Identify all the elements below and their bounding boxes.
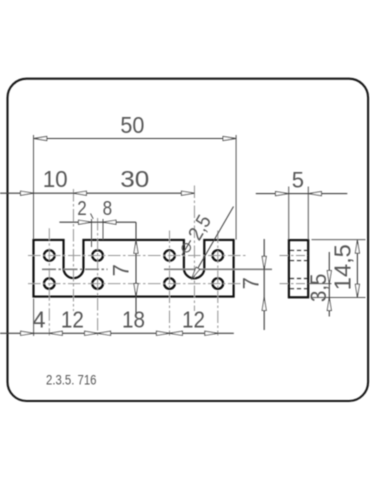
- arrow 30 right: [181, 191, 194, 195]
- arrow 7mid bottom: [134, 284, 138, 297]
- arrow chain 18 right: [156, 331, 169, 335]
- extension line side bottom right: [311, 296, 366, 298]
- card frame: [8, 79, 369, 401]
- hole A1: [44, 250, 55, 261]
- svg-text:7: 7: [239, 277, 264, 289]
- hidden line bottom hole lower: [290, 288, 308, 290]
- svg-text:14,5: 14,5: [330, 244, 356, 290]
- centerline hole row 2: [28, 283, 246, 285]
- arrow 5 left outside: [276, 192, 289, 196]
- svg-text:12: 12: [61, 307, 84, 333]
- arrow 7mid top: [134, 240, 138, 253]
- centerline hole row 1: [28, 255, 246, 257]
- hole D2: [213, 278, 224, 289]
- hole D1: [213, 250, 224, 261]
- arrow 10 outside-left: [21, 191, 34, 195]
- diameter symbol slash: [182, 240, 191, 255]
- arrowheads: [21, 136, 360, 335]
- arrow chain 12b right: [205, 331, 218, 335]
- dimension line bottom chain: [0, 332, 234, 334]
- diameter symbol circle: [182, 244, 190, 252]
- arrow 14,5 top: [355, 240, 359, 253]
- side view rectangle: [289, 240, 308, 297]
- arrow 7right lower pointing up: [262, 297, 266, 310]
- svg-text:5: 5: [292, 168, 304, 193]
- arrow leader tip: [191, 267, 199, 279]
- tick after 2: [91, 214, 94, 219]
- centerline hole column 1: [48, 228, 50, 335]
- extension line plate left top: [33, 135, 35, 239]
- hidden line top hole upper: [290, 249, 308, 251]
- svg-text:30: 30: [120, 166, 149, 192]
- svg-text:3,5: 3,5: [306, 274, 331, 303]
- svg-text:8: 8: [103, 198, 113, 220]
- arrow chain 12b left: [169, 331, 182, 335]
- arrow 3,5 lower pointing up: [327, 298, 331, 311]
- arrow 14,5 bottom: [355, 284, 359, 297]
- dimension line 7 middle vertical: [135, 222, 137, 313]
- svg-text:7: 7: [108, 264, 133, 276]
- arrow 50 left: [34, 136, 47, 140]
- dimension line 2 and 8: [59, 221, 135, 223]
- svg-text:2.3.5. 716: 2.3.5. 716: [46, 372, 97, 387]
- arrow 2 pointing right: [79, 220, 92, 224]
- hole C1: [164, 250, 175, 261]
- centerline slot 1: [72, 189, 74, 311]
- svg-text:2: 2: [77, 198, 87, 220]
- arrow chain 4 outside-left: [21, 331, 34, 335]
- arrow chain 12a left: [49, 331, 62, 335]
- leader line dia 2,5: [191, 207, 233, 280]
- dimension line 10: [0, 192, 73, 194]
- dimension line 3,5 vertical: [328, 252, 330, 317]
- hole A2: [44, 278, 55, 289]
- centerline hole column 3: [169, 231, 171, 336]
- extension line 50 right: [235, 135, 237, 240]
- svg-text:50: 50: [120, 112, 144, 138]
- slot arc axis line left segment: [42, 268, 108, 270]
- arrow 30 left: [73, 191, 86, 195]
- arrow chain 18 left: [98, 331, 111, 335]
- extension line slot width left: [91, 219, 93, 247]
- extension line side top right: [312, 239, 366, 241]
- arrow 50 right: [223, 136, 236, 140]
- extension line side view left: [288, 187, 290, 240]
- dimension line 50: [34, 138, 236, 140]
- plate outline (front view with two U slots): [34, 240, 234, 297]
- arrow 7right upper pointing down: [262, 256, 266, 269]
- extension line 8 left: [102, 219, 104, 240]
- arrow 5 right outside: [308, 192, 321, 196]
- centerline slot 2: [193, 186, 195, 312]
- centerline hole column 2: [97, 218, 99, 336]
- svg-text:10: 10: [43, 166, 68, 192]
- arrow 3,5 upper pointing down: [327, 271, 331, 284]
- svg-text:18: 18: [122, 307, 145, 333]
- slot arc axis line right segment: [164, 268, 272, 270]
- extension line side view right: [307, 187, 309, 240]
- centerline hole column 4: [217, 231, 219, 336]
- hole B1: [92, 250, 103, 261]
- dimension line 7 right vertical: [263, 239, 265, 330]
- dimension line 30: [73, 192, 194, 194]
- extension line plate left bottom: [33, 299, 35, 337]
- side view row2 centerline: [280, 283, 308, 285]
- hidden line bottom hole upper: [290, 278, 308, 280]
- side view row1 centerline: [280, 255, 308, 257]
- dimension line 14,5 vertical: [356, 240, 358, 297]
- hidden line top hole lower: [290, 260, 308, 262]
- dimension line 5 side: [256, 193, 347, 195]
- arrow 8 pointing left: [103, 220, 116, 224]
- hole C2: [164, 278, 175, 289]
- svg-text:12: 12: [182, 307, 205, 333]
- extension line row2 right of side view: [308, 283, 331, 285]
- arrow chain 12a right: [85, 331, 98, 335]
- svg-text:4: 4: [33, 307, 46, 333]
- hole B2: [92, 278, 103, 289]
